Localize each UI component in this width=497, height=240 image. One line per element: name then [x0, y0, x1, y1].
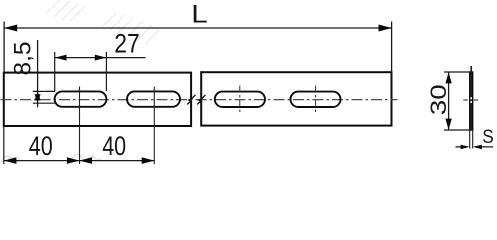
30 dimension: extension lines: [444, 72, 474, 130]
break mark left: [187, 95, 195, 105]
front view: left piece outline: [4, 73, 191, 126]
svg-text:40: 40: [29, 131, 53, 161]
slot 3 centerline: [239, 86, 241, 114]
watermark hatch top-left: [46, 0, 159, 44]
svg-text:8,5: 8,5: [9, 42, 36, 76]
40 dimensions: extension lines: [3, 126, 5, 164]
watermark curls bottom-left: [1, 154, 102, 163]
30 dimension arrows: [445, 72, 451, 83]
30 dimension line: [448, 72, 450, 130]
svg-text:27: 27: [114, 29, 140, 59]
27 dimension: extension lines: [55, 52, 107, 91]
slot 4 centerline: [315, 86, 317, 114]
S dimension line: [456, 146, 494, 148]
side view: strip outline: [470, 72, 473, 130]
S dimension arrows: [461, 145, 470, 150]
break mark right: [197, 95, 205, 105]
svg-text:30: 30: [426, 84, 451, 115]
L dimension arrows: [4, 25, 17, 32]
S dimension: extension lines from strip: [470, 130, 473, 149]
40 dimension line: [4, 160, 155, 162]
40 dimension arrows: [4, 157, 17, 164]
svg-text:L: L: [191, 0, 208, 28]
L dimension: extension lines: [4, 22, 392, 74]
horizontal centerline: [1, 99, 398, 101]
8,5 dimension arrows: [35, 92, 41, 101]
slot 2 centerline / extension to 40-dim: [153, 87, 155, 165]
slot 1 centerline / extension to 40-dim: [79, 87, 81, 165]
8,5 dimension: extension lines: [33, 91, 57, 103]
slot 2: [127, 91, 180, 106]
svg-text:S: S: [482, 126, 494, 148]
svg-text:40: 40: [102, 131, 126, 161]
27 dimension line with tail: [55, 57, 146, 59]
L dimension line: [4, 27, 392, 29]
27 dimension arrows: [55, 55, 67, 61]
side view: vertical centerline: [470, 66, 472, 130]
side view: horizontal centerline: [463, 99, 478, 101]
slot 4: [291, 92, 341, 107]
front view: right piece outline: [201, 72, 391, 125]
slot 3: [215, 92, 265, 107]
slot 1: [55, 91, 107, 106]
8,5 dimension line: [37, 40, 39, 107]
